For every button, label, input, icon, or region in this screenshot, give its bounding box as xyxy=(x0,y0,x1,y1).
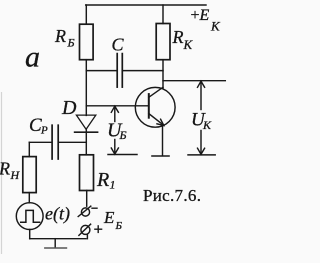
svg-text:R: R xyxy=(172,27,184,47)
svg-text:E: E xyxy=(103,208,115,227)
emitter ground bar xyxy=(152,155,169,157)
svg-text:Рис.7.6.: Рис.7.6. xyxy=(143,186,201,205)
terminal minus xyxy=(81,208,89,216)
svg-text:К: К xyxy=(183,37,194,52)
svg-text:R: R xyxy=(96,169,109,191)
wire bottom rail xyxy=(30,238,86,240)
resistor RH xyxy=(23,157,36,193)
wire generator to bottom xyxy=(29,230,31,239)
resistor R1 xyxy=(80,155,94,191)
svg-text:1: 1 xyxy=(110,178,116,192)
transistor emitter arrowhead xyxy=(157,119,164,125)
svg-text:Б: Б xyxy=(115,220,123,232)
svg-text:Н: Н xyxy=(10,168,21,182)
transistor emitter stroke xyxy=(149,114,164,126)
wire RB bottom to diode xyxy=(85,60,87,116)
wire diode to R1 xyxy=(85,129,87,155)
svg-text:D: D xyxy=(61,97,77,119)
svg-text:Б: Б xyxy=(67,36,75,50)
wire node C-left: cap C left lead xyxy=(86,70,116,72)
svg-text:a: a xyxy=(25,41,40,74)
svg-text:R: R xyxy=(0,158,10,178)
capacitor C xyxy=(116,54,118,88)
resistor RB xyxy=(80,24,94,60)
generator e(t) circle xyxy=(16,203,43,230)
scan artifact left edge xyxy=(1,92,3,254)
wire RK to collector xyxy=(162,60,164,88)
wire UB bottom reference xyxy=(108,154,137,156)
wire plus terminal to bottom rail xyxy=(86,235,88,239)
arrow UK down segment xyxy=(200,131,202,155)
wire top rail to RK xyxy=(162,5,164,24)
wire emitter down xyxy=(162,125,164,155)
resistor RK xyxy=(156,24,170,60)
wire top rail +Ek xyxy=(86,4,206,6)
capacitor Cp xyxy=(51,125,53,159)
transistor base bar xyxy=(148,94,150,118)
svg-text:R: R xyxy=(54,26,66,46)
svg-text:К: К xyxy=(210,19,221,34)
svg-text:C: C xyxy=(112,35,125,55)
arrow UB down segment xyxy=(114,140,116,155)
terminal plus xyxy=(81,225,90,234)
wire Cp left lead xyxy=(29,141,51,143)
svg-text:Б: Б xyxy=(119,128,127,142)
wire Cp right lead xyxy=(59,141,86,143)
wire Uk top reference xyxy=(163,80,225,82)
svg-text:e(t): e(t) xyxy=(45,203,70,224)
ground xyxy=(54,239,56,248)
svg-text:К: К xyxy=(202,118,212,132)
diode D xyxy=(76,115,95,129)
transistor VT circle xyxy=(135,87,175,127)
svg-text:P: P xyxy=(40,125,48,137)
wire UK bottom reference xyxy=(188,154,215,156)
wire base lead xyxy=(86,105,148,107)
generator pulse symbol xyxy=(21,210,40,222)
wire cap C right lead to collector line xyxy=(123,70,163,72)
wire RH to generator xyxy=(28,193,30,203)
transistor collector stroke xyxy=(149,87,163,97)
arrow UK up segment xyxy=(200,81,202,109)
wire top rail to RB xyxy=(85,5,87,24)
wire R1 to minus terminal xyxy=(86,191,88,207)
wire Cp to RH xyxy=(28,142,30,156)
arrow UB up segment xyxy=(114,106,116,121)
svg-text:+E: +E xyxy=(191,7,210,24)
